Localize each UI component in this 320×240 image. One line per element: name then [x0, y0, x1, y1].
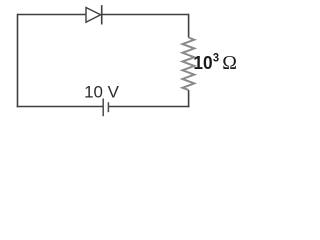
wire: right side upper (corner to resistor top): [188, 14, 190, 38]
wire: left side vertical: [17, 14, 19, 108]
svg-text:10: 10: [193, 52, 212, 73]
wire: right side lower (resistor bottom to corner): [188, 90, 190, 107]
wire: bottom-left segment to battery: [17, 106, 104, 108]
svg-text:10 V: 10 V: [84, 83, 120, 102]
resistor R1 zigzag: [183, 38, 195, 91]
battery B1: short plate: [107, 102, 109, 112]
battery B1: long plate: [102, 99, 104, 117]
diode D1: triangle (anode): [86, 8, 101, 23]
svg-text:Ω: Ω: [222, 52, 237, 74]
wire: diode cathode to top-right corner: [102, 14, 189, 16]
diode D1: cathode bar: [101, 5, 103, 24]
svg-text:3: 3: [213, 52, 219, 64]
wire: battery to bottom-right corner: [108, 106, 189, 108]
wire: top-left segment to diode anode: [18, 14, 87, 16]
